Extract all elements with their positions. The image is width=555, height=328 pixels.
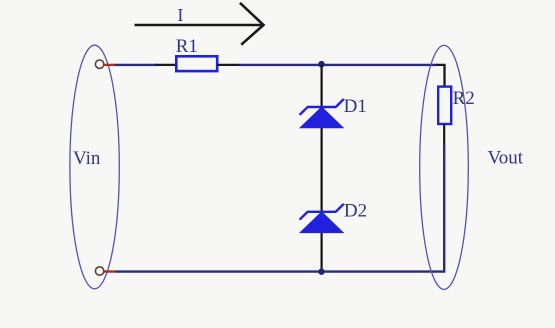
port Vin ellipse <box>70 45 119 289</box>
svg-text:I: I <box>177 5 183 25</box>
junction bottom node <box>318 269 324 275</box>
terminal bottom-left <box>95 267 103 275</box>
zener diode D2 <box>299 204 345 233</box>
svg-text:D1: D1 <box>344 96 367 117</box>
port Vout ellipse <box>420 45 469 289</box>
pin R2 top <box>436 65 445 87</box>
resistor R2 <box>438 87 451 124</box>
svg-text:Vout: Vout <box>488 148 524 169</box>
pin R1 right <box>217 64 240 66</box>
wire top-left <box>115 64 157 66</box>
pin R2 bottom <box>443 124 445 146</box>
svg-text:R1: R1 <box>176 36 198 57</box>
port stub bottom-left <box>104 270 116 272</box>
zener diode D1 <box>299 99 345 128</box>
svg-text:Vin: Vin <box>73 148 101 169</box>
pin R1 left <box>156 64 178 66</box>
wire right vertical and bottom <box>115 145 444 272</box>
resistor R1 <box>176 56 217 71</box>
svg-text:D2: D2 <box>344 200 367 221</box>
junction top node <box>318 61 325 68</box>
port stub top-left <box>104 64 116 66</box>
wire middle vertical (diode branch) <box>321 65 323 272</box>
wire top-right <box>239 64 437 66</box>
terminal top-left <box>95 60 103 68</box>
current arrow I <box>135 3 264 45</box>
